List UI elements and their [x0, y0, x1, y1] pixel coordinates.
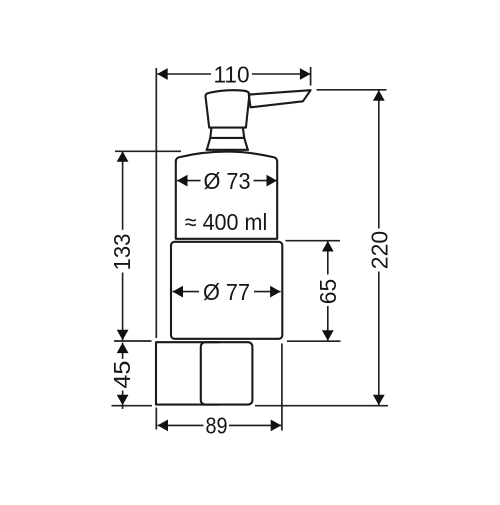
svg-text:110: 110 — [214, 62, 250, 88]
svg-text:Ø 73: Ø 73 — [204, 168, 251, 194]
svg-text:89: 89 — [206, 413, 228, 439]
svg-text:65: 65 — [315, 279, 341, 305]
svg-text:Ø 77: Ø 77 — [203, 279, 250, 305]
svg-text:133: 133 — [109, 234, 135, 271]
svg-text:220: 220 — [366, 231, 392, 270]
svg-text:45: 45 — [109, 361, 135, 389]
svg-text:≈ 400 ml: ≈ 400 ml — [185, 209, 268, 235]
